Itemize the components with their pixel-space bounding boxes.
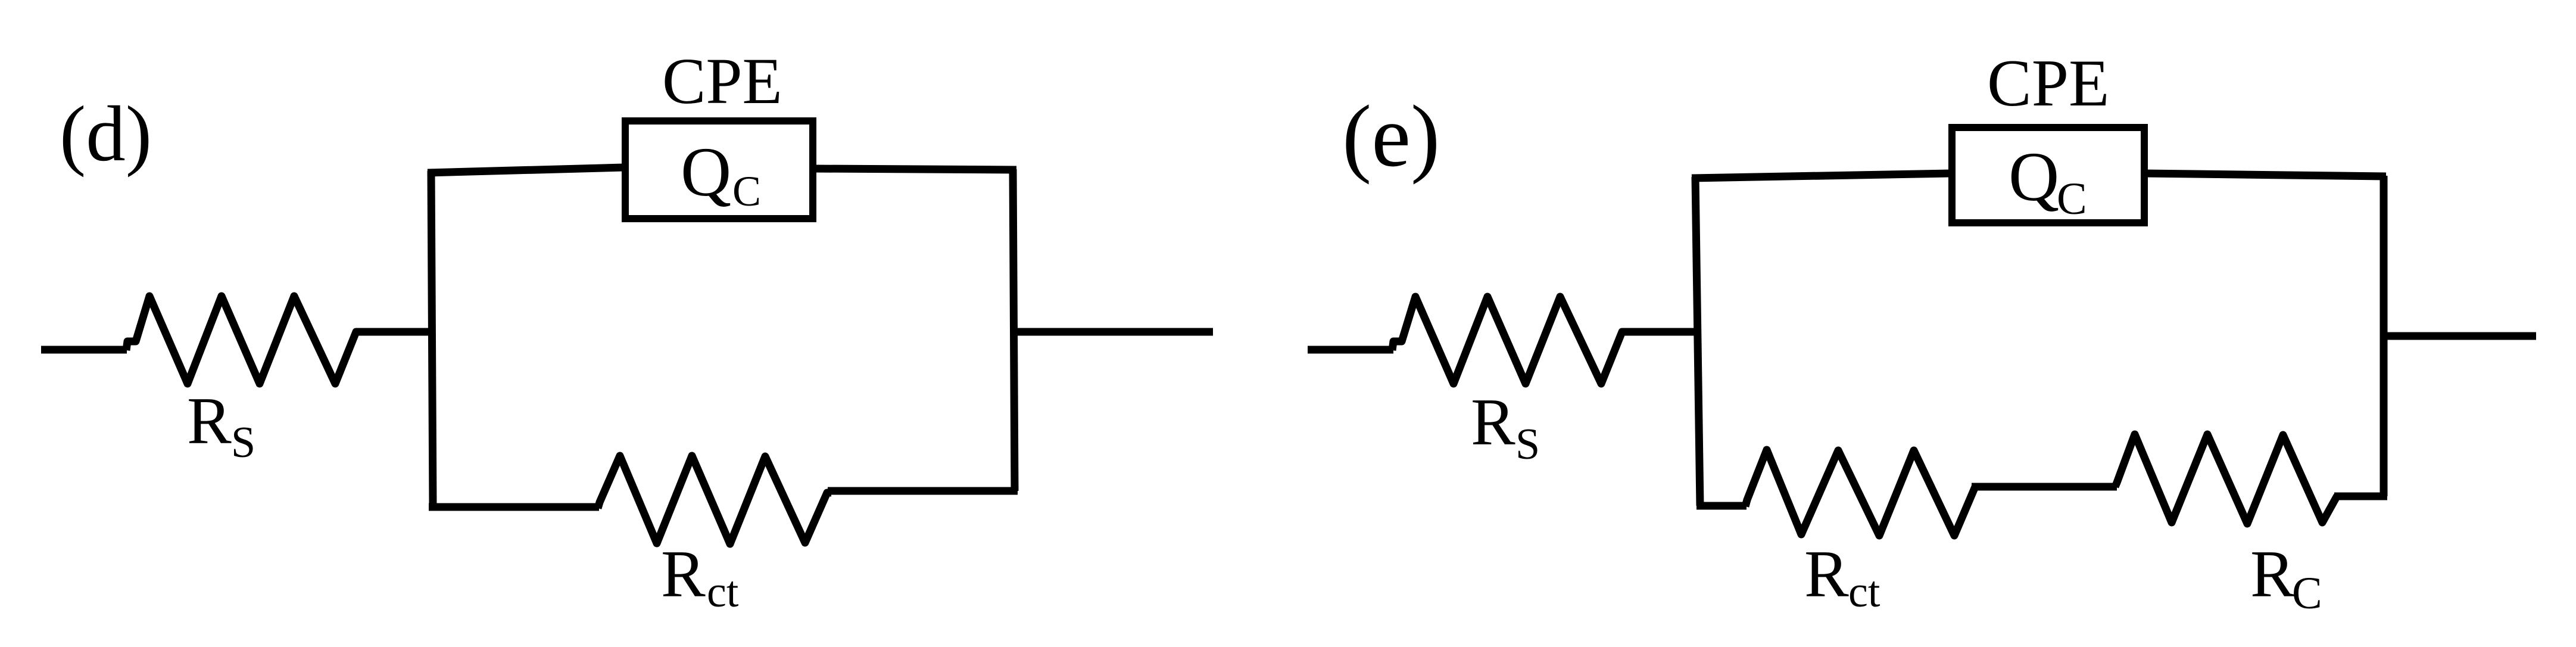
wire left branch vertical (d)	[431, 171, 433, 508]
wire middle bottom (e)	[1972, 483, 2117, 491]
wire top right (d)	[813, 169, 1016, 170]
wire top left (e)	[1692, 173, 1951, 178]
wire output e	[2384, 332, 2536, 340]
svg-text:CPE: CPE	[662, 45, 782, 117]
svg-text:R: R	[1471, 385, 1515, 459]
svg-text:C: C	[2292, 568, 2322, 618]
label QC (d)	[681, 133, 761, 215]
svg-text:C: C	[2057, 174, 2087, 224]
CPE box (e)	[1952, 127, 2144, 223]
svg-text:R: R	[1804, 537, 1849, 611]
label Rct (e)	[1804, 537, 1880, 617]
svg-text:CPE: CPE	[1987, 46, 2109, 120]
label QC (e)	[2009, 138, 2087, 224]
label RS (e)	[1471, 385, 1540, 469]
wire bottom left (e)	[1696, 502, 1747, 510]
svg-text:ct: ct	[707, 568, 739, 617]
wire Rc to right vertical (e)	[2334, 493, 2387, 500]
wire output d	[1014, 328, 1213, 336]
svg-text:(d): (d)	[60, 89, 152, 178]
svg-text:S: S	[231, 418, 255, 467]
svg-text:C: C	[732, 167, 761, 215]
svg-text:Q: Q	[2009, 138, 2059, 216]
label RC (e)	[2250, 537, 2322, 618]
wire right branch vertical (d)	[1013, 169, 1015, 491]
svg-text:(e): (e)	[1342, 88, 1440, 185]
svg-text:Q: Q	[681, 133, 731, 211]
resistor RS (d)	[126, 296, 361, 384]
svg-text:R: R	[661, 537, 706, 611]
wire RS to node (d)	[357, 328, 435, 336]
wire top right (e)	[2143, 173, 2386, 176]
wire right branch vertical (e)	[2380, 176, 2388, 496]
CPE box (d)	[625, 121, 813, 219]
resistor Rct (d)	[598, 456, 831, 544]
wire input d	[41, 346, 127, 354]
wire bottom left (d)	[429, 503, 599, 511]
label RS (d)	[187, 384, 255, 467]
wire top left (d)	[428, 167, 624, 173]
wire input e	[1308, 346, 1393, 354]
resistor RS (e)	[1392, 297, 1627, 384]
wire RS to node (e)	[1623, 328, 1701, 336]
svg-text:S: S	[1515, 420, 1540, 469]
resistor RC (e)	[2115, 434, 2337, 524]
svg-text:R: R	[2250, 537, 2295, 611]
svg-text:ct: ct	[1848, 568, 1880, 617]
resistor Rct (e)	[1745, 450, 1975, 536]
svg-text:R: R	[187, 384, 232, 458]
label Rct (d)	[661, 537, 739, 617]
wire bottom right (d)	[828, 487, 1018, 495]
wire left branch vertical (e)	[1695, 177, 1700, 506]
